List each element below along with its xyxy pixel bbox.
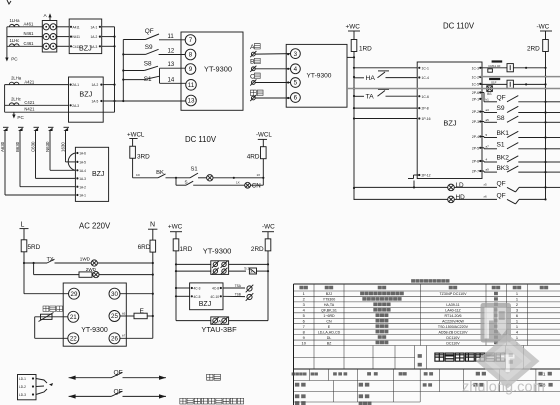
wire BZJ2 out y101 — [103, 100, 123, 102]
svg-text:N421: N421 — [24, 106, 35, 111]
svg-text:HA: HA — [366, 75, 376, 82]
wire C630 to BZJ3-4 — [36, 177, 76, 179]
svg-text:BK1: BK1 — [497, 130, 510, 137]
svg-text:TA: TA — [366, 93, 375, 100]
svg-text:21: 21 — [70, 314, 77, 321]
switch QF — [145, 28, 159, 39]
contact TA — [354, 89, 417, 100]
resistor 2WD — [79, 267, 97, 277]
U3 pin 22 — [68, 333, 79, 344]
feeder B630 — [15, 127, 24, 186]
svg-text:a3: a3 — [486, 108, 490, 112]
lamp LD — [354, 182, 497, 191]
wire pin26 to N drop — [120, 334, 153, 339]
grey bus y88.5 — [347, 88, 560, 90]
svg-text:L: L — [21, 222, 25, 229]
relay BZJ3 — [75, 147, 108, 201]
svg-text:LD-3: LD-3 — [19, 393, 26, 397]
wires bus to BZJ4 — [176, 288, 190, 296]
svg-text:1C-1: 1C-1 — [422, 66, 429, 70]
wire A phase circuit2 y84.6 — [5, 84, 69, 86]
svg-text:29: 29 — [71, 291, 78, 298]
contact S8 row — [480, 115, 560, 122]
svg-text:6: 6 — [303, 318, 305, 323]
svg-text:+WC: +WC — [346, 24, 361, 31]
row3 output components — [480, 78, 545, 96]
fuse 1RD — [351, 31, 372, 60]
svg-text:b5: b5 — [122, 311, 126, 315]
terminal TSB — [223, 292, 253, 300]
svg-text:AD58-ZB DC110V: AD58-ZB DC110V — [438, 330, 468, 334]
wire to switch QF — [123, 39, 145, 41]
svg-text:1C-6: 1C-6 — [422, 95, 429, 99]
U1 pin 11 — [186, 80, 197, 91]
svg-text:N: N — [150, 222, 155, 229]
contact BK1 row — [480, 130, 560, 137]
svg-text:25: 25 — [111, 313, 118, 320]
svg-text:x5: x5 — [484, 183, 488, 187]
label YT-9300 bottom — [203, 246, 232, 255]
label A with arrow above terminal block — [44, 13, 52, 20]
svg-text:AC 220V: AC 220V — [79, 222, 111, 231]
svg-text:14: 14 — [168, 77, 175, 83]
wire TX to lamp — [55, 262, 92, 264]
svg-text:A411: A411 — [73, 25, 80, 29]
label 至计量柜电磁锁回路 — [180, 398, 244, 404]
svg-text:1: 1 — [516, 324, 518, 329]
svg-text:4: 4 — [294, 66, 298, 73]
U3 pin 25 — [109, 311, 120, 322]
label sensor 传感器 — [43, 306, 62, 311]
svg-text:6RD: 6RD — [138, 244, 151, 251]
wire U2 to bus — [347, 56, 355, 58]
label A421 — [24, 79, 34, 84]
svg-text:QF: QF — [497, 192, 506, 199]
BZJ1 terminals — [70, 25, 101, 49]
wire C相 to U2 — [255, 81, 290, 83]
svg-text:C411: C411 — [73, 45, 81, 49]
svg-text:3: 3 — [303, 302, 305, 307]
CT 2LHc — [9, 97, 21, 106]
wire 1630 to BZJ3-2 — [66, 161, 76, 162]
svg-text:DL: DL — [327, 336, 332, 340]
wire lamp1 to 4RD — [213, 173, 264, 179]
branch S2 CN — [176, 178, 245, 185]
svg-text:26: 26 — [111, 336, 118, 343]
svg-text:2P-8: 2P-8 — [472, 160, 479, 164]
svg-text:YT-9300: YT-9300 — [204, 64, 232, 73]
wire to switch S1 — [123, 79, 144, 81]
U1 pin 13 — [186, 95, 197, 106]
U1 pin 8 — [185, 49, 196, 60]
svg-text:1A-3: 1A-3 — [79, 177, 86, 181]
wire bus to BZJ5 1P-16 — [354, 118, 417, 120]
svg-text:-WCL: -WCL — [256, 132, 272, 139]
svg-text:CN: CN — [326, 319, 332, 323]
L terminal — [20, 222, 29, 229]
svg-text:B630: B630 — [15, 141, 20, 152]
wire 12 — [159, 48, 186, 54]
terminal TSA — [223, 284, 253, 292]
U3 pin 26 — [109, 333, 120, 344]
label DC 110V — [443, 21, 475, 30]
svg-text:1A-3: 1A-3 — [91, 45, 98, 49]
svg-text:1A-2: 1A-2 — [79, 185, 86, 189]
test terminal 接地 — [250, 90, 263, 101]
svg-text:S8: S8 — [144, 60, 152, 67]
svg-text:b1: b1 — [486, 97, 490, 101]
svg-text:TZ304P DC110V: TZ304P DC110V — [439, 292, 467, 296]
lamp 1XD — [207, 175, 213, 181]
label YTAU-3BF — [201, 325, 237, 334]
svg-text:1C-2: 1C-2 — [472, 76, 479, 80]
svg-text:2P-12: 2P-12 — [422, 174, 431, 178]
wire BZJ2 out y84.6 — [103, 84, 114, 86]
fuse 2RD — [527, 31, 548, 60]
svg-text:YT-9300: YT-9300 — [81, 327, 108, 334]
svg-text:x6: x6 — [484, 195, 488, 199]
svg-text:2P-6: 2P-6 — [472, 91, 479, 95]
bus V2 x123.3 — [122, 40, 124, 103]
switch S9 — [145, 44, 159, 54]
svg-text:DC 110V: DC 110V — [185, 135, 217, 144]
svg-text:1: 1 — [516, 335, 518, 340]
svg-text:YT-9300: YT-9300 — [307, 73, 332, 80]
N terminal — [148, 222, 157, 230]
svg-text:N461: N461 — [24, 31, 35, 36]
svg-text:1A-2: 1A-2 — [91, 35, 98, 39]
wire BK to node — [166, 177, 191, 179]
CT 1LHc — [10, 38, 20, 47]
wire B相 to U2 — [255, 68, 290, 70]
test terminal B相 — [250, 58, 260, 72]
svg-text:DC110V: DC110V — [446, 336, 460, 340]
svg-text:TSA: TSA — [235, 284, 242, 288]
bus -WC bottom — [267, 258, 269, 321]
contact TX — [33, 257, 55, 264]
cell 图号 — [509, 353, 513, 363]
svg-text:2A-1: 2A-1 — [72, 83, 79, 87]
wire row2 drop — [34, 263, 79, 275]
right rail -WC — [544, 60, 546, 200]
contact HA — [354, 71, 417, 82]
svg-text:6: 6 — [516, 313, 518, 318]
svg-text:BZJ: BZJ — [79, 90, 92, 99]
device U2 YT-9300 box — [286, 44, 347, 107]
svg-text:8: 8 — [303, 329, 305, 334]
left bus circuit1 — [6, 27, 8, 58]
-WCL terminal — [256, 132, 272, 140]
wire to pin 13 of U1 — [115, 100, 186, 102]
svg-text:QF: QF — [145, 28, 154, 35]
device S.1 box — [244, 267, 268, 274]
svg-text:5: 5 — [303, 313, 305, 318]
CT 1LHa — [10, 18, 21, 27]
svg-text:PC: PC — [11, 56, 18, 61]
switch S1 — [144, 76, 160, 83]
ground PC circuit2 — [12, 112, 24, 120]
U2 pin 4 — [291, 64, 301, 74]
lamp 1WD — [80, 257, 153, 267]
svg-text:2LHa: 2LHa — [11, 76, 22, 81]
title block grid — [294, 279, 560, 405]
wire 13 — [160, 62, 186, 68]
svg-text:2LHc: 2LHc — [11, 97, 21, 102]
test terminal A相 — [250, 44, 260, 58]
svg-text:S1: S1 — [497, 142, 505, 149]
contact QF on HD row — [497, 192, 546, 204]
U2 pin 6 — [291, 93, 301, 103]
svg-text:LA40-11Z: LA40-11Z — [445, 309, 461, 313]
spare line 1 with QF — [69, 370, 166, 380]
svg-text:2A-3: 2A-3 — [72, 104, 79, 108]
svg-text:1C-3: 1C-3 — [472, 66, 479, 70]
BZJ2 terminals — [70, 83, 103, 108]
-WC terminal bottom — [262, 223, 275, 231]
S8-S1 common bracket — [159, 68, 161, 83]
wire 4RD down — [262, 166, 264, 185]
svg-text:S.1: S.1 — [244, 267, 249, 271]
fuse 1RD bottom — [173, 232, 192, 258]
svg-text:DC110V: DC110V — [446, 341, 460, 345]
svg-text:12: 12 — [168, 48, 175, 54]
svg-text:QF,BK,S1: QF,BK,S1 — [321, 309, 337, 313]
svg-text:4C-10: 4C-10 — [210, 295, 219, 299]
U3 pin 29 — [69, 288, 80, 299]
svg-text:BZJ: BZJ — [443, 118, 456, 127]
svg-text:DC 110V: DC 110V — [443, 21, 475, 30]
feeder A630 — [0, 127, 8, 195]
svg-text:QF: QF — [497, 180, 506, 187]
row1 output components — [480, 60, 545, 72]
svg-text:1A-6: 1A-6 — [79, 152, 86, 156]
svg-text:1LHa: 1LHa — [10, 18, 21, 23]
BOM rows — [302, 291, 519, 345]
svg-text:C630: C630 — [30, 141, 35, 152]
contact BK3 row — [480, 165, 560, 172]
svg-text:LD-2: LD-2 — [19, 385, 26, 389]
svg-text:CN: CN — [252, 183, 261, 190]
wire 14 — [160, 77, 186, 83]
wire N circuit1 y36.6 — [7, 31, 42, 37]
svg-text:22: 22 — [70, 336, 77, 343]
svg-text:YTAU-3BF: YTAU-3BF — [201, 325, 237, 334]
label DC 110V middle — [185, 135, 217, 144]
svg-text:A421: A421 — [24, 79, 34, 84]
svg-text:S9: S9 — [497, 105, 505, 112]
wire bus to BZJ5 2P-8 — [354, 107, 417, 109]
svg-text:BS: BS — [487, 92, 491, 96]
test terminal C相 — [250, 73, 260, 86]
fuse 2RD bottom — [251, 232, 271, 258]
svg-text:5RD: 5RD — [28, 244, 41, 251]
wire to switch S9 — [123, 53, 145, 55]
svg-text:13: 13 — [188, 98, 195, 105]
drawing title 电源总柜原理图 — [435, 353, 505, 361]
label C421 — [24, 100, 35, 105]
title block texts — [292, 372, 553, 405]
label C461 — [24, 41, 35, 46]
svg-text:1C-4: 1C-4 — [422, 76, 429, 80]
fuse 3RD — [130, 139, 150, 167]
wire L drop to pin29 — [24, 263, 69, 294]
svg-text:1: 1 — [303, 291, 305, 296]
svg-text:7: 7 — [303, 324, 305, 329]
wire 3RD down — [133, 166, 158, 178]
bus V1 x114.5 — [113, 27, 115, 112]
svg-text:S1F: S1F — [491, 81, 497, 85]
BZJ5 right terminals — [472, 66, 482, 173]
spare line 2 with QF — [69, 388, 166, 398]
svg-text:1A-5: 1A-5 — [79, 161, 86, 165]
svg-text:3RD: 3RD — [137, 153, 150, 160]
BZJ3 terminals — [76, 152, 86, 198]
svg-text:LA39-11: LA39-11 — [446, 303, 459, 307]
svg-text:4C-5: 4C-5 — [194, 295, 201, 299]
wire S1 to lamp1 — [198, 177, 207, 179]
wire B630 to BZJ3-5 — [20, 186, 75, 188]
wire 接地 to U2 — [255, 97, 290, 99]
connector YTAU — [176, 317, 268, 324]
contact S9 row — [480, 105, 560, 112]
svg-text:b7: b7 — [122, 334, 126, 338]
wires terminal block to BZJ1 — [57, 27, 69, 47]
grey bus y76.6 — [480, 76, 560, 78]
svg-text:PC: PC — [17, 115, 24, 120]
svg-text:S1: S1 — [191, 167, 198, 173]
svg-text:CM11.4F: CM11.4F — [488, 64, 500, 68]
lamp HD — [354, 194, 497, 203]
svg-text:2P-1: 2P-1 — [472, 98, 479, 102]
svg-text:BZJ: BZJ — [92, 171, 104, 178]
feeder 1630 — [60, 127, 69, 160]
wire N630 to BZJ3-3 — [50, 169, 75, 171]
svg-text:S9: S9 — [145, 44, 153, 51]
svg-text:-WC: -WC — [537, 24, 550, 31]
contact QF row — [480, 93, 560, 102]
svg-text:1: 1 — [516, 297, 518, 302]
svg-text:+WCL: +WCL — [127, 132, 145, 139]
svg-text:2P-8: 2P-8 — [422, 107, 429, 111]
bus +WC bottom — [175, 258, 177, 321]
svg-text:1: 1 — [516, 291, 518, 296]
svg-text:C461: C461 — [24, 41, 35, 46]
svg-text:A630: A630 — [0, 141, 5, 152]
device U1 YT-9300 box — [181, 32, 243, 110]
svg-text:N411: N411 — [73, 35, 81, 39]
U2 pin 5 — [291, 78, 301, 88]
svg-text:BZ: BZ — [327, 341, 332, 345]
top edge stray mark — [7, 0, 11, 4]
svg-text:1RD: 1RD — [180, 246, 193, 253]
svg-text:RT14-20/6: RT14-20/6 — [445, 314, 462, 318]
svg-text:2P-3: 2P-3 — [472, 120, 479, 124]
svg-text:a7: a7 — [486, 144, 490, 148]
svg-text:30: 30 — [111, 291, 118, 298]
svg-text:QF: QF — [497, 95, 506, 102]
svg-text:AC220V/40W: AC220V/40W — [442, 319, 464, 323]
contact QF on LD row — [497, 180, 560, 192]
svg-text:1LHc: 1LHc — [10, 38, 20, 43]
svg-text:4C-3: 4C-3 — [194, 287, 201, 291]
lamp CN — [245, 182, 264, 189]
wires BZJ1 to bus V1 — [102, 27, 115, 47]
relay BZJ5 box — [417, 62, 482, 179]
+WC terminal bottom — [168, 223, 183, 231]
svg-text:13: 13 — [168, 62, 175, 68]
wire C phase circuit1 y46.3 — [7, 45, 42, 47]
lamp row2 — [93, 272, 153, 278]
-WC terminal — [537, 24, 553, 32]
terminal block A — [42, 21, 57, 53]
sensor element — [35, 313, 68, 339]
svg-text:11: 11 — [188, 82, 195, 89]
svg-text:3: 3 — [294, 51, 298, 58]
wire row1 AC220 — [23, 262, 47, 264]
svg-text:9: 9 — [189, 66, 193, 73]
svg-text:C421: C421 — [24, 100, 35, 105]
svg-text:7: 7 — [189, 37, 193, 44]
svg-text:a5: a5 — [486, 118, 490, 122]
svg-text:2P-2: 2P-2 — [472, 110, 479, 114]
name cell 名称 — [418, 354, 422, 366]
feeder N630 — [45, 127, 54, 170]
fuse 4RD — [247, 139, 266, 166]
svg-text:LD,LA,HD,CD: LD,LA,HD,CD — [318, 330, 341, 334]
fuse 6RD — [138, 229, 156, 263]
device U3 YT-9300 box — [63, 283, 126, 346]
left bus circuit2 — [4, 85, 6, 113]
feeder C630 — [30, 127, 39, 178]
wire A相 to U2 — [255, 53, 290, 55]
svg-text:5: 5 — [294, 80, 298, 87]
wire A630 to BZJ3-6 — [5, 194, 75, 196]
BZJ4 terminals — [191, 287, 222, 299]
svg-text:1C-5: 1C-5 — [472, 83, 479, 87]
svg-text:2P-5: 2P-5 — [472, 146, 479, 150]
+WCL terminal — [127, 132, 145, 139]
wire 11 — [159, 34, 185, 40]
label 备用 — [207, 374, 221, 380]
svg-text:YT9300: YT9300 — [323, 298, 336, 302]
svg-text:LD-1: LD-1 — [19, 377, 26, 381]
CT 2LHa — [9, 76, 21, 85]
wire N circuit2 y112.2 — [5, 106, 115, 112]
svg-text:8: 8 — [189, 52, 193, 59]
wire N to pin30 — [120, 293, 153, 295]
contact BK2 row — [480, 155, 560, 162]
svg-text:1RD: 1RD — [359, 46, 372, 53]
BOM header — [299, 286, 548, 290]
wire LD terminal link — [413, 181, 415, 188]
svg-text:1~6RD: 1~6RD — [323, 314, 335, 318]
svg-text:3: 3 — [516, 308, 518, 313]
svg-text:1A-2: 1A-2 — [92, 83, 99, 87]
jumper arc terminal1-3 — [68, 153, 75, 170]
wire to switch S8 — [123, 70, 144, 72]
svg-text:1630: 1630 — [60, 142, 65, 152]
label A461 — [24, 21, 34, 26]
U3 pin 30 — [109, 288, 120, 299]
svg-text:2RD: 2RD — [527, 46, 540, 53]
wire N drop — [152, 262, 154, 338]
svg-text:TS0-1500/AC220V: TS0-1500/AC220V — [438, 325, 469, 329]
svg-text:2P-4: 2P-4 — [472, 135, 479, 139]
svg-text:N630: N630 — [45, 141, 50, 152]
U1 pin 9 — [185, 64, 196, 75]
svg-text:1A-4: 1A-4 — [79, 169, 86, 173]
wire bus to BZJ5 1C-1 — [354, 67, 417, 69]
